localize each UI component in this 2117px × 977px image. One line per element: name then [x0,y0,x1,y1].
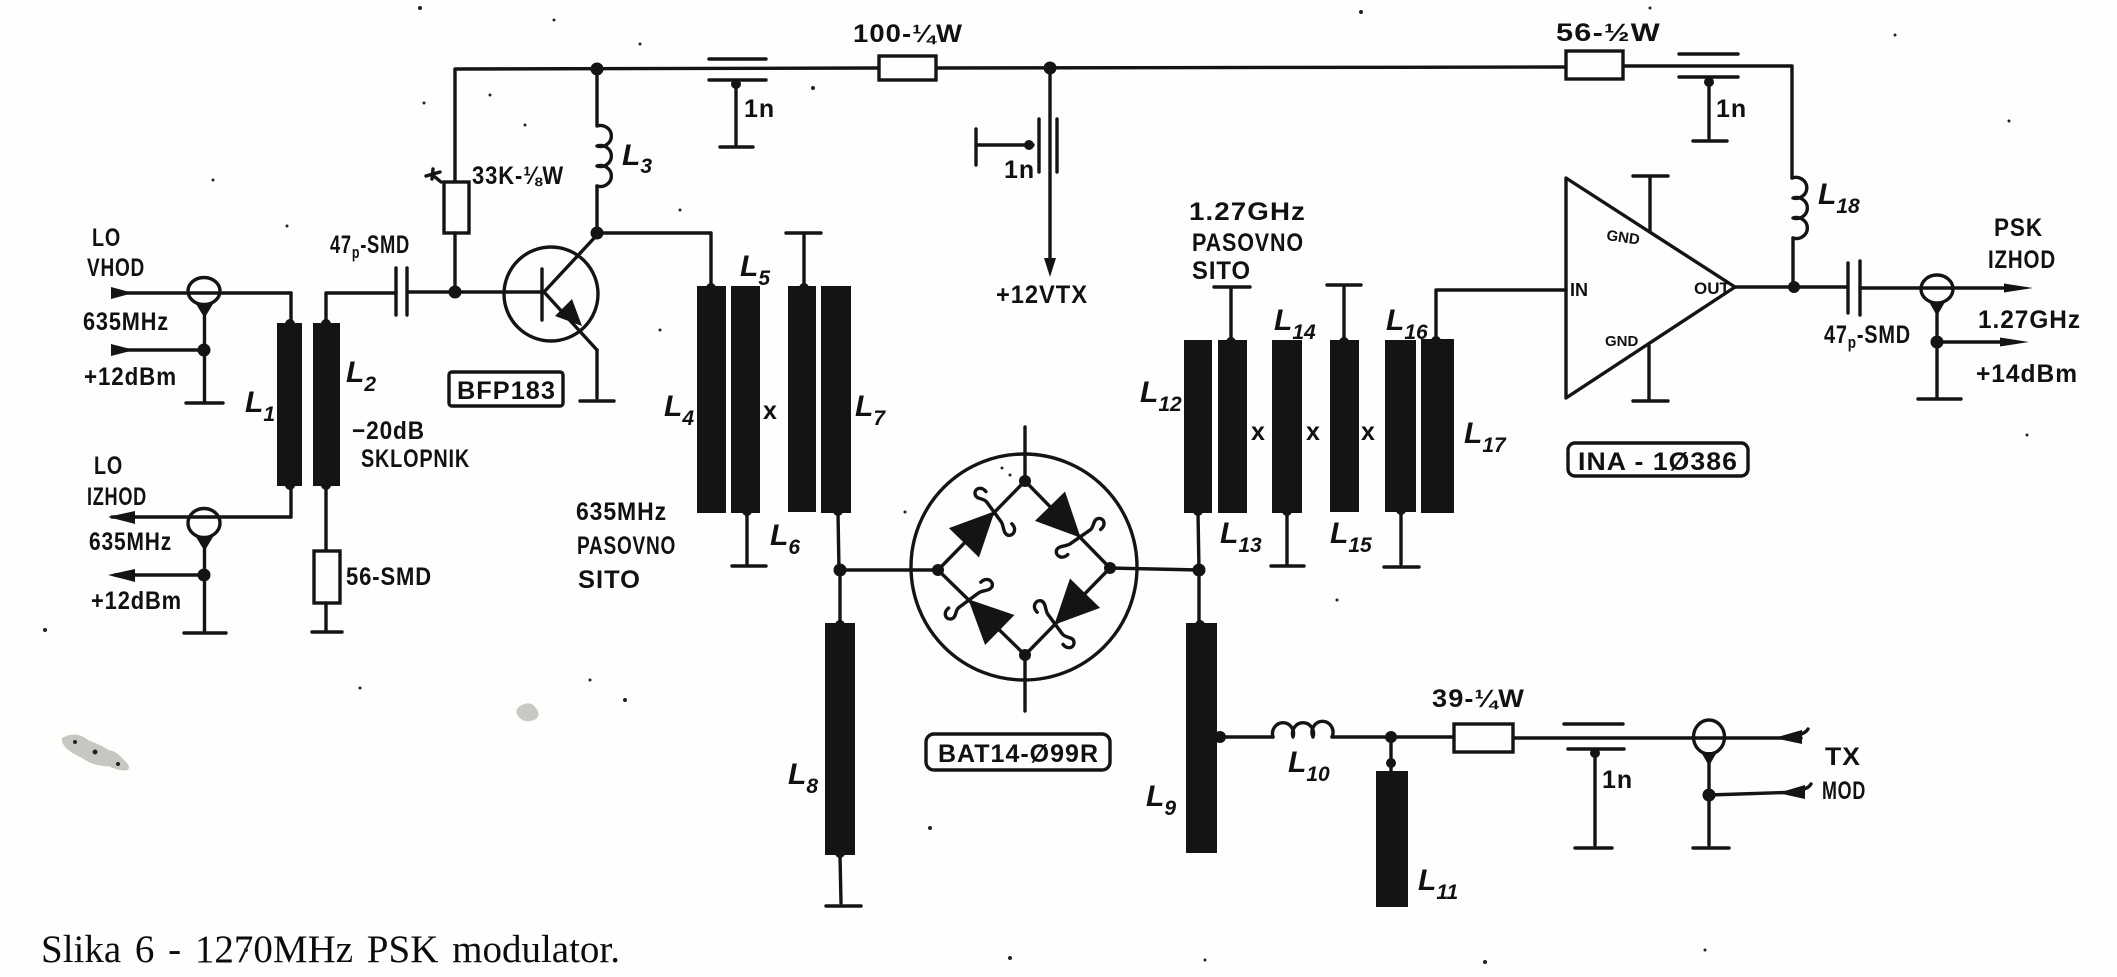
ground (TX 1n) [1575,846,1612,849]
scan smudges [62,703,539,770]
ground (right 1n) [1693,139,1727,142]
capacitor 47p-SMD output [1848,261,1860,315]
transistor Q1 BFP183 [504,235,598,350]
open end bar (L13) [1214,285,1250,288]
node +14dBm tap [1931,336,1944,349]
ground (LO IZHOD) [184,631,226,634]
resistor 56-1/2W [1566,51,1623,79]
svg-text:33K-⅛W: 33K-⅛W [472,162,564,190]
capacitor C 1n (left decoupling) [709,59,766,145]
open end bar (L6) [786,231,821,234]
node L12/L9 junction [1193,564,1206,577]
svg-text:x: x [1306,418,1321,446]
wire L17 top to amp IN [1436,290,1566,339]
diode D1 (left-top arm) [944,486,1021,563]
ground (sideways bar) [974,129,977,165]
wire junction to L9 top [1197,570,1200,623]
open end bar (L15) [1327,283,1361,286]
svg-text:PSK: PSK [1994,214,2043,242]
coupled line L2 [313,323,340,486]
stripline L12 [1184,340,1212,513]
wire L14 bottom stub [1285,513,1288,564]
mixer diamond wires [938,481,1110,655]
wire L16 bottom stub [1399,512,1402,564]
output wire with left arrow [108,511,291,524]
wire base [407,290,540,293]
open end bar (L5) [732,564,766,567]
stripline L8 [825,623,855,855]
ground (TX MOD) [1693,846,1729,849]
wire L2 bottom to 56-SMD [324,486,327,551]
node L11 junction [1385,731,1397,743]
wire L7 junction to mixer left node [840,568,938,571]
svg-text:1n: 1n [1004,156,1035,184]
diode D2 (top-right arm) [1029,487,1106,564]
stripline L14 [1272,340,1302,513]
wire top rail right segment with corner down to L18 [1623,66,1792,178]
label INA-10386 boxed [1568,443,1748,476]
wire mixer top stub [1023,427,1026,481]
node base junction [449,286,462,299]
open end bar (L14) [1271,564,1304,567]
capacitor 1n (right decoupling) [1679,54,1738,138]
op-amp U1 INA-10386 triangle [1566,178,1735,398]
connector J1 LO VHOD [188,278,220,319]
node mixer bottom [1019,649,1031,661]
wire L5 bottom stub [745,513,748,564]
node MOD junction [1703,789,1716,802]
wire L6 top stub [802,235,805,286]
svg-text:PASOVNO: PASOVNO [1192,229,1304,257]
wire +14dBm arrow [1937,338,2029,347]
ground (L8) [826,904,861,907]
stripline L17 [1421,339,1454,513]
svg-text:PASOVNO: PASOVNO [577,532,676,560]
node L9 tap [1214,731,1226,743]
wire cap to PSK connector [1860,286,2010,289]
resistor 39-1/4W [1454,724,1513,752]
wire L15 top stub [1342,287,1345,340]
wire L2 top to 47p cap [326,293,396,322]
resistor 56-SMD [314,551,340,603]
wire junction to L8 [838,570,841,623]
wire top rail middle segment [935,67,1566,68]
label BAT14-099R boxed [926,734,1110,770]
svg-text:IN: IN [1570,280,1588,300]
svg-text:+14dBm: +14dBm [1976,360,2078,388]
svg-text:635MHz: 635MHz [83,308,169,336]
node: +12VTX junction [1044,62,1057,75]
wire MOD arrow [1709,784,1811,799]
svg-text:x: x [1361,418,1376,446]
node: L3 top junction [591,63,604,76]
wire collector to 635MHz filter [597,233,711,286]
open end bar (amp top) [1633,174,1668,177]
inductor L18 [1792,177,1807,287]
wire L12 bottom to junction [1198,513,1199,570]
wire +12dBm tap with arrow [111,344,211,357]
stripline L9 [1186,623,1217,853]
wire 56-SMD to ground [324,603,327,631]
resistor 33K-1/8W [444,182,469,233]
node mixer top [1019,475,1031,487]
mixer circle [911,454,1137,680]
wire L7 bottom to mixer node [838,513,839,570]
svg-text:VHOD: VHOD [87,254,145,282]
inductor L10 [1273,721,1334,737]
svg-text:39-¼W: 39-¼W [1432,685,1525,713]
stripline L11 [1376,771,1408,907]
wire connector ground stem [203,549,206,631]
stripline L6 [788,286,816,512]
svg-text:SITO: SITO [1192,257,1251,285]
scribble tk mark [426,169,441,182]
svg-text:1.27GHz: 1.27GHz [1189,198,1306,226]
wire L9 to L10 [1217,735,1273,738]
coupled line L1 [277,323,302,486]
stripline L13 [1218,340,1247,513]
connector J3 TX MOD [1694,720,1725,766]
svg-text:TX: TX [1825,743,1861,771]
diode D4 (bottom-left arm) [943,573,1020,650]
capacitor 47p-SMD input [396,268,407,315]
capacitor 1n (+12VTX decoupling, sideways) [976,119,1057,172]
wire top rail left segment [455,68,879,182]
label BFP183 boxed [449,372,563,406]
svg-text:47p-SMD: 47p-SMD [1824,321,1911,352]
svg-text:MOD: MOD [1822,777,1866,805]
stripline L16 [1385,340,1416,512]
svg-text:1n: 1n [744,95,775,123]
wire GND top stub [1648,178,1651,232]
wire amp OUT to cap [1735,285,1848,288]
svg-text:1n: 1n [1602,766,1633,794]
wire connector to L1 top [289,293,292,322]
ground (left 1n) [720,145,753,148]
wire connector ground stem [1707,764,1710,845]
svg-text:635MHz: 635MHz [576,498,667,526]
wire junction to L11 [1389,737,1392,771]
svg-text:SKLOPNIK: SKLOPNIK [361,445,470,473]
wire TX arrow [1774,729,1808,744]
ground (amp bottom) [1633,399,1668,402]
wire PSK arrow [2004,284,2033,293]
node collector junction [591,227,604,240]
wire mixer right node to filter junction [1110,568,1199,570]
wire L8 bottom to ground [840,855,841,903]
connector J4 PSK IZHOD [1921,275,1953,316]
wire L10 to resistor [1332,735,1454,738]
svg-text:+12dBm: +12dBm [84,363,177,391]
svg-text:100-¼W: 100-¼W [853,20,963,48]
wire GND bottom stub [1647,345,1650,399]
wire L13 top stub [1229,289,1232,340]
open end bar (L16) [1384,565,1419,568]
ground (56-SMD) [312,630,342,633]
input wire with right arrow [111,287,291,299]
stripline L15 [1330,340,1359,512]
resistor 100-1/4W [879,56,936,80]
svg-text:47p-SMD: 47p-SMD [330,231,410,262]
wire 33K bottom to base [453,233,456,292]
stripline L4 [697,286,726,513]
node mixer right [1104,562,1116,574]
svg-text:+12dBm: +12dBm [91,587,182,615]
svg-text:SITO: SITO [578,566,641,594]
wire +12dBm tap with arrow [108,569,211,583]
svg-text:x: x [1251,418,1266,446]
capacitor 1n (TX line) [1564,724,1624,845]
svg-text:IZHOD: IZHOD [87,483,147,511]
svg-text:Slika 6 - 1270MHz PSK modulato: Slika 6 - 1270MHz PSK modulator. [41,928,620,971]
svg-text:OUT: OUT [1694,279,1731,298]
svg-text:x: x [763,397,778,425]
stripline L5 [731,286,760,513]
svg-text:INA - 1Ø386: INA - 1Ø386 [1578,448,1738,476]
svg-text:1n: 1n [1716,95,1747,123]
diode D3 (right-bottom arm) [1028,573,1105,650]
svg-text:56-SMD: 56-SMD [346,563,432,591]
wire connector ground stem [203,316,206,401]
svg-text:+12VTX: +12VTX [996,281,1088,309]
svg-text:IZHOD: IZHOD [1988,246,2056,274]
wire connector to L1 bottom [289,486,292,517]
stripline L7 [821,286,851,513]
svg-text:−20dB: −20dB [352,417,425,445]
svg-text:1.27GHz: 1.27GHz [1978,306,2081,334]
svg-text:635MHz: 635MHz [89,528,172,556]
svg-text:LO: LO [92,224,121,252]
inductor L3 [597,68,611,233]
ground (PSK) [1918,397,1961,400]
connector J2 LO IZHOD [188,509,220,552]
node OUT junction [1788,281,1800,293]
wire resistor to TX connector [1513,736,1801,739]
wire connector ground stem [1935,314,1938,397]
wire mixer bottom stub [1023,655,1026,711]
svg-text:56-½W: 56-½W [1556,19,1661,47]
ground (LO VHOD) [186,401,223,404]
node L7/L8 junction [834,564,847,577]
svg-text:BAT14-Ø99R: BAT14-Ø99R [938,740,1099,768]
ground (emitter) [580,399,614,402]
wire emitter to ground [595,350,598,398]
svg-text:LO: LO [94,452,123,480]
node mixer left [932,564,944,576]
svg-text:GND: GND [1605,333,1639,350]
wire +12VTX feed with down arrow [1044,68,1056,277]
svg-text:BFP183: BFP183 [457,377,556,405]
